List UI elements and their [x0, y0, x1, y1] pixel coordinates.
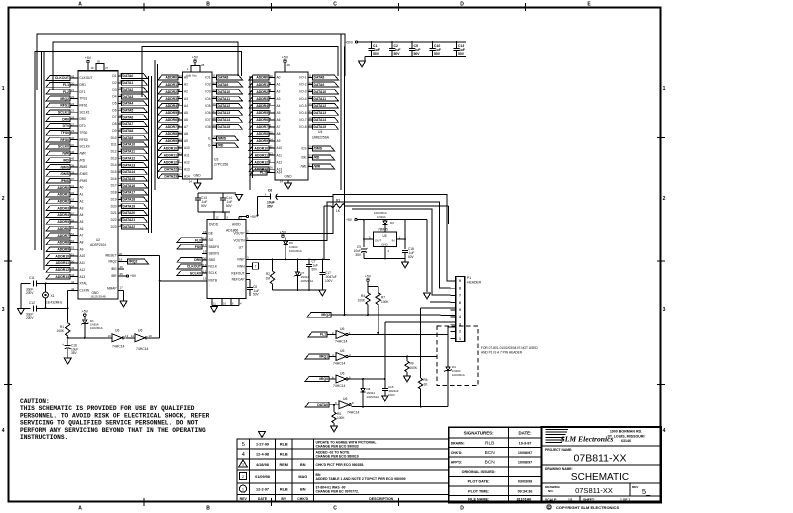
inverter U6E 74HC14 with net /IRQ0 [305, 372, 351, 389]
svg-text:ADDR7: ADDR7 [165, 125, 177, 129]
svg-text:CHANGE PER ECO 980619: CHANGE PER ECO 980619 [316, 455, 359, 459]
svg-text:C: C [333, 2, 337, 8]
svg-text:15: 15 [203, 230, 207, 234]
svg-text:ADDR0: ADDR0 [57, 186, 69, 190]
svg-text:100K: 100K [381, 300, 389, 304]
note text: 7 pin header option [481, 346, 538, 355]
U4 pin 4 A6 / net ADDR6 [249, 116, 281, 122]
svg-text:A1: A1 [184, 83, 188, 87]
svg-text:GND: GND [91, 291, 99, 295]
U2 pin 49 A12 / net ADDR12 [46, 266, 85, 272]
company logo [546, 430, 614, 444]
svg-text:DATA14: DATA14 [218, 118, 231, 122]
svg-text:FOR 07-801-01/02/03/04 IS NOT: FOR 07-801-01/02/03/04 IS NOT USED [481, 346, 538, 350]
svg-text:5: 5 [459, 308, 461, 312]
svg-text:DATA11: DATA11 [218, 97, 231, 101]
svg-text:D3: D3 [112, 88, 116, 92]
svg-text:A9: A9 [184, 139, 188, 143]
wire: address/data bus top loop 3 [142, 47, 338, 97]
svg-text:PERFORM ANY SERVICING BEYOND T: PERFORM ANY SERVICING BEYOND THAT IN THE… [20, 427, 206, 434]
svg-text:1M: 1M [266, 277, 271, 281]
revision table header row [240, 497, 394, 501]
svg-text:19: 19 [213, 123, 217, 127]
svg-text:/IRQ2: /IRQ2 [129, 260, 138, 264]
capacitor C14 .1uF 50V at U7 [220, 193, 233, 212]
resistor R4 100K [358, 287, 371, 315]
svg-text:17: 17 [309, 109, 313, 113]
U3 pin 22 /OE to /RD [208, 142, 238, 148]
svg-text:7: 7 [255, 265, 257, 269]
svg-text:DATA22: DATA22 [123, 225, 136, 229]
svg-text:RFS0: RFS0 [60, 138, 69, 142]
svg-text:R9: R9 [410, 362, 414, 366]
svg-text:/BMS: /BMS [218, 137, 227, 141]
svg-text:51: 51 [71, 253, 75, 257]
svg-text:DATA15: DATA15 [218, 125, 231, 129]
svg-text:SBO: SBO [209, 258, 216, 262]
svg-text:A8: A8 [80, 241, 84, 245]
svg-text:34: 34 [71, 205, 75, 209]
svg-text:SCLK0: SCLK0 [58, 145, 69, 149]
svg-text:/WR: /WR [62, 152, 69, 156]
svg-text:50V: 50V [434, 52, 441, 56]
svg-text:DATA15: DATA15 [123, 177, 136, 181]
svg-text:NCLK: NCLK [209, 265, 218, 269]
diode D4 1N914 100V/61A in dashed option box [444, 335, 464, 407]
svg-text:/RESET: /RESET [105, 254, 117, 258]
diode D8 1N914 100V/61A [361, 379, 380, 407]
U2 pin 39 D2 / net DATA1 [112, 79, 147, 85]
svg-text:50V: 50V [201, 204, 208, 208]
svg-text:A4: A4 [277, 104, 281, 108]
IC U7 DAC AD1866 body [207, 220, 246, 299]
svg-text:I/O-8: I/O-8 [299, 125, 306, 129]
svg-text:U2: U2 [96, 238, 100, 242]
svg-text:45: 45 [120, 272, 124, 276]
svg-text:81101H6_: 81101H6_ [517, 498, 535, 502]
U2 pin 24 RFS1 / net RFS1 [46, 102, 88, 108]
svg-text:4: 4 [663, 428, 666, 434]
svg-text:2: 2 [459, 330, 461, 334]
wire: oscillator node to inverter U6 input [67, 337, 107, 339]
svg-text:ADDR11: ADDR11 [164, 153, 177, 157]
svg-text:74HC14: 74HC14 [136, 347, 149, 351]
svg-text:23: 23 [270, 152, 274, 156]
svg-text:B: B [206, 506, 210, 512]
svg-text:18: 18 [203, 250, 207, 254]
svg-text:IO4: IO4 [205, 97, 210, 101]
svg-text:100V/61A: 100V/61A [452, 373, 465, 377]
U2 pin 46 /WR / net /WR [46, 150, 86, 156]
U7 pin 18 SBOFS [202, 250, 219, 256]
svg-text:DT0: DT0 [63, 124, 70, 128]
svg-text:ADDR2: ADDR2 [256, 90, 268, 94]
wire: address bus verticals left of U3 [155, 60, 158, 190]
svg-text:DATA10: DATA10 [123, 143, 136, 147]
capacitor C13 .1uF 50V [454, 41, 465, 56]
svg-text:A9: A9 [277, 139, 281, 143]
svg-text:PLOT DATE:: PLOT DATE: [468, 480, 490, 484]
U2 pin 26 DR0 / net DR0 [46, 116, 86, 122]
svg-text:ADDR1: ADDR1 [57, 193, 69, 197]
svg-text:31: 31 [71, 184, 75, 188]
svg-text:1K: 1K [336, 209, 341, 213]
svg-text:A3: A3 [277, 97, 281, 101]
svg-text:A12: A12 [277, 160, 283, 164]
svg-text:ADDR5: ADDR5 [256, 111, 268, 115]
svg-text:DATA14: DATA14 [123, 170, 136, 174]
svg-text:IO5: IO5 [205, 104, 210, 108]
svg-text:ADDR9: ADDR9 [165, 139, 177, 143]
diode D3 1N914 100V/61A [374, 211, 394, 232]
net flag /IRQ2 to header pin 4 [307, 313, 455, 318]
svg-text:A5: A5 [80, 220, 84, 224]
U2 pin 45 /RD / net /RD [46, 157, 86, 163]
U2 pin 22 TFS1 / net /IRQ2 [46, 95, 88, 101]
svg-text:DATA9: DATA9 [218, 83, 229, 87]
U3 pin 4 A6 / net ADDR6 [158, 116, 188, 122]
svg-text:A13: A13 [184, 167, 190, 171]
U2 pin 29 TFS0 / net TFS0 [46, 129, 88, 135]
U4 label text [312, 130, 330, 140]
U7 pin 15 DE [202, 230, 213, 236]
svg-text:A5: A5 [277, 111, 281, 115]
U4 pin 22 /OE / net /RD [301, 154, 335, 160]
capacitor C10 .1uF 50V [430, 41, 441, 56]
diode D6 1N914 100V/61A [283, 241, 301, 260]
svg-text:ADDR0: ADDR0 [165, 76, 177, 80]
svg-text:74HC14: 74HC14 [333, 384, 346, 388]
svg-text:ADDR8: ADDR8 [165, 132, 177, 136]
svg-text:IO7: IO7 [205, 118, 210, 122]
svg-text:100V/61A: 100V/61A [289, 249, 302, 253]
svg-text:DATE:: DATE: [518, 431, 532, 436]
signature row 1 [451, 440, 532, 446]
svg-text:11: 11 [309, 74, 312, 78]
svg-text:UM62256A: UM62256A [312, 136, 330, 140]
svg-text:SCHEMATIC: SCHEMATIC [571, 472, 629, 483]
U4 GND pin 14 and ground [280, 175, 292, 190]
svg-text:11: 11 [213, 74, 216, 78]
svg-text:46: 46 [71, 150, 75, 154]
svg-text:+5V: +5V [365, 275, 372, 279]
svg-text:DATA21: DATA21 [123, 218, 136, 222]
svg-text:14: 14 [280, 180, 284, 184]
grid reference numbers left [2, 86, 12, 434]
svg-text:ORIGINAL ISSUED:: ORIGINAL ISSUED: [462, 470, 496, 474]
svg-text:D18: D18 [111, 191, 117, 195]
svg-text:IN: IN [392, 239, 395, 243]
svg-text:C: C [333, 506, 337, 512]
U2 pin 14 D22 / net DATA21 [111, 216, 148, 222]
wire: CLKIN line to C12 rail [21, 290, 70, 322]
U2 pin 57 A4 / net ADDR4 [46, 211, 84, 217]
svg-text:74HC14: 74HC14 [347, 411, 360, 415]
U2 GND label [91, 291, 99, 295]
svg-text:U6: U6 [138, 329, 142, 333]
svg-text:13: 13 [213, 88, 217, 92]
copyright text [547, 505, 620, 510]
U4 pin 7 A3 / net ADDR3 [249, 95, 281, 101]
svg-text:22: 22 [309, 154, 313, 158]
U4 pin 1 A14 / net FL1 [250, 169, 282, 175]
wire: C6 line to VOUTP loop [332, 195, 334, 197]
svg-text:01/09/98: 01/09/98 [255, 475, 270, 479]
svg-text:37: 37 [105, 66, 108, 70]
svg-text:SCLK0: SCLK0 [190, 271, 201, 275]
signatures header [464, 431, 532, 436]
svg-text:A: A [78, 506, 82, 512]
svg-text:DATA10: DATA10 [314, 90, 327, 94]
svg-text:10-3-97: 10-3-97 [519, 441, 532, 445]
svg-text:57: 57 [71, 211, 75, 215]
svg-text:DATA15: DATA15 [314, 125, 327, 129]
svg-text:21: 21 [270, 145, 274, 149]
voltage regulator U5 78M05 [369, 228, 401, 254]
U2 pin 53 A8 / net ADDR8 [46, 239, 84, 245]
svg-text:DT0: DT0 [80, 124, 86, 128]
svg-text:U6: U6 [115, 329, 119, 333]
svg-text:21: 21 [71, 88, 75, 92]
svg-text:RFS0: RFS0 [80, 138, 88, 142]
svg-text:ADDR2: ADDR2 [57, 200, 69, 204]
svg-text:10: 10 [270, 74, 274, 78]
svg-text:SCLK1: SCLK1 [58, 110, 69, 114]
svg-text:46: 46 [120, 265, 124, 269]
diode D7 zener 1N914 100V/61A [294, 260, 313, 291]
U2 pin 54 A7 / net ADDR7 [46, 232, 84, 238]
svg-text:A12: A12 [184, 160, 190, 164]
U4 pin 18 I/O-7 / net DATA14 [299, 116, 338, 122]
U4 pin 21 A10 / net ADDR10 [249, 145, 282, 151]
power +5V at U3 [187, 56, 205, 73]
svg-text:/BR: /BR [111, 274, 117, 278]
svg-text:+: + [367, 246, 369, 250]
svg-text:D1: D1 [112, 74, 116, 78]
U2 pin 41 XTAL [70, 280, 87, 286]
U2 pin 44 A13 / net ADDR13 [46, 273, 85, 279]
svg-text:36: 36 [71, 163, 75, 167]
svg-text:RFS1: RFS1 [80, 104, 88, 108]
U2 pin 65 D8 / net DATA7 [112, 120, 147, 126]
svg-text:12-2-97: 12-2-97 [256, 487, 269, 491]
svg-text:DATA0: DATA0 [317, 403, 328, 407]
svg-text:09:34:36: 09:34:36 [518, 489, 533, 493]
svg-text:A4: A4 [184, 104, 188, 108]
svg-text:ADDR1: ADDR1 [256, 83, 268, 87]
U3 pin 9 A1 / net ADDR1 [158, 81, 188, 87]
svg-text:BCN: BCN [485, 460, 496, 466]
svg-text:DATA3: DATA3 [123, 95, 134, 99]
svg-text:TFS0: TFS0 [80, 131, 88, 135]
svg-text:+5V: +5V [82, 310, 89, 314]
svg-text:20: 20 [119, 252, 123, 256]
svg-text:D: D [460, 2, 464, 8]
svg-text:A0: A0 [277, 76, 281, 80]
signature row 3 [451, 460, 532, 466]
ground for capacitor bank [359, 57, 366, 68]
svg-text:200V: 200V [26, 316, 34, 320]
svg-text:COPYRIGHT SLM ELECTRONICS: COPYRIGHT SLM ELECTRONICS [556, 505, 619, 510]
svg-text:A0: A0 [184, 76, 188, 80]
svg-text:15: 15 [309, 95, 313, 99]
svg-text:DATA20: DATA20 [123, 211, 136, 215]
wire: U6D output line [349, 356, 438, 358]
svg-text:D7: D7 [112, 115, 116, 119]
svg-text:U6: U6 [340, 372, 344, 376]
svg-text:VINP: VINP [237, 258, 244, 262]
svg-text:D23: D23 [111, 225, 117, 229]
svg-text:D20: D20 [111, 204, 117, 208]
svg-text:1900 BORMAN RD.: 1900 BORMAN RD. [610, 430, 642, 434]
svg-text:A2: A2 [277, 90, 281, 94]
svg-text:/IRQ2: /IRQ2 [108, 260, 117, 264]
U7 pin 16 SI2 / net FL0 [177, 237, 214, 243]
U7 pin 13 SCLK / net SCLK0 [177, 270, 218, 276]
U2 pin 4 D13 / net DATA12 [111, 154, 148, 160]
svg-text:IO1: IO1 [205, 76, 210, 80]
U2 pin 9 D17 / net DATA16 [111, 182, 148, 188]
svg-text:U6: U6 [343, 397, 347, 401]
U3 label text [214, 158, 228, 167]
svg-text:12: 12 [216, 215, 219, 219]
wire: VOUTP to header pin 9 [246, 195, 451, 281]
svg-text:/DMS: /DMS [80, 172, 88, 176]
svg-text:ADDR10: ADDR10 [55, 254, 69, 258]
svg-text:DATA8: DATA8 [218, 76, 229, 80]
U3 pin 17 IO6 / net DATA13 [205, 109, 242, 115]
svg-text:56: 56 [71, 218, 75, 222]
U2 pin 5 D14 / net DATA13 [111, 161, 148, 167]
U2 pin 45 /BR and +5V pull [111, 272, 137, 278]
U2 pin 37 /PMS / net /PMS [46, 177, 87, 183]
svg-text:SIGNATURES:: SIGNATURES: [464, 431, 494, 436]
ground at crystal rail [18, 309, 25, 315]
svg-text:DATA19: DATA19 [123, 204, 136, 208]
svg-text:ADDR7: ADDR7 [57, 234, 69, 238]
svg-text:D19: D19 [111, 197, 117, 201]
svg-text:SHEET:: SHEET: [583, 498, 595, 502]
svg-text:78M05: 78M05 [378, 228, 388, 232]
svg-text:/OE: /OE [301, 156, 307, 160]
svg-text:13: 13 [203, 270, 207, 274]
svg-text:DATA23: DATA23 [164, 175, 177, 179]
svg-text:CHK'D: CHK'D [297, 497, 308, 501]
svg-text:D13: D13 [111, 156, 117, 160]
resistor R2 1M [266, 260, 275, 291]
svg-text:DR0: DR0 [62, 117, 69, 121]
svg-text:U5: U5 [382, 234, 386, 238]
svg-text:DATA16: DATA16 [123, 184, 136, 188]
svg-text:D3: D3 [390, 221, 394, 225]
svg-text:I/O-5: I/O-5 [299, 104, 306, 108]
svg-text:I/O-2: I/O-2 [299, 83, 306, 87]
wire: U6F output line to header region [352, 406, 449, 408]
svg-text:17: 17 [213, 109, 217, 113]
capacitor C9 10uF 35V [354, 245, 369, 259]
svg-text:3: 3 [663, 307, 666, 313]
svg-text:50V: 50V [458, 52, 465, 56]
svg-text:100V/61A: 100V/61A [90, 326, 103, 330]
svg-text:100V: 100V [325, 279, 333, 283]
svg-text:24: 24 [71, 102, 75, 106]
U2 pin 64 D7 / net DATA6 [112, 113, 147, 119]
svg-text:TFS1: TFS1 [80, 97, 88, 101]
svg-text:A10: A10 [80, 254, 86, 258]
U7 pin 14 NCLK / net CLKOUT [177, 263, 218, 269]
power +5V at U4 [282, 56, 290, 73]
svg-text:MAG: MAG [298, 475, 307, 479]
U7 bottom pins and ground [211, 299, 243, 313]
U2 pin 10 D18 / net DATA17 [111, 189, 148, 195]
U2 pin 35 /DMS / net /DMS [46, 170, 87, 176]
U2 pin 55 A6 / net ADDR6 [46, 225, 84, 231]
svg-text:14: 14 [189, 180, 193, 184]
svg-text:27: 27 [309, 163, 313, 167]
svg-text:DATA1: DATA1 [123, 81, 134, 85]
svg-text:I/O-7: I/O-7 [299, 118, 306, 122]
svg-text:50V: 50V [408, 255, 415, 259]
svg-text:/PMS: /PMS [61, 179, 70, 183]
svg-text:A14: A14 [277, 171, 283, 175]
svg-text:50V: 50V [226, 204, 233, 208]
svg-text:17: 17 [120, 286, 124, 290]
svg-text:A0: A0 [80, 186, 84, 190]
svg-text:8: 8 [459, 286, 461, 290]
capacitor C15 .0022uF 100V [382, 322, 399, 401]
svg-text:100V/61A: 100V/61A [367, 395, 380, 399]
U4 pin 5 A5 / net ADDR5 [249, 109, 281, 115]
svg-text:I/O-3: I/O-3 [299, 90, 306, 94]
svg-text:/IRQ2: /IRQ2 [321, 313, 330, 317]
svg-text:A9: A9 [80, 247, 84, 251]
svg-text:I/O-1: I/O-1 [299, 76, 306, 80]
U3 pin 6 A4 / net ADDR4 [158, 102, 188, 108]
svg-text:/WR: /WR [80, 151, 87, 155]
svg-text:A10: A10 [184, 146, 190, 150]
svg-text:63146: 63146 [621, 439, 631, 443]
svg-text:36: 36 [203, 256, 207, 260]
U2 pin 2 D12 / net DATA11 [111, 148, 148, 154]
svg-text:ADDR3: ADDR3 [57, 206, 69, 210]
svg-text:ST. LOUIS, MISSOURI: ST. LOUIS, MISSOURI [608, 434, 645, 438]
U2 pin 7 D16 / net DATA15 [111, 175, 148, 181]
svg-text:25: 25 [270, 130, 274, 134]
svg-text:9: 9 [459, 279, 461, 283]
svg-text:R4: R4 [361, 294, 365, 298]
svg-text:DATA10: DATA10 [218, 90, 231, 94]
svg-text:74HC14: 74HC14 [335, 340, 348, 344]
U2 pin 27 DT0 / net DT0 [46, 122, 86, 128]
svg-text:DATE: DATE [258, 497, 268, 501]
inverter U6D 74HC14 with net /IRQ1 [305, 349, 351, 366]
svg-text:/RD: /RD [63, 158, 69, 162]
svg-text:ADDR4: ADDR4 [57, 213, 69, 217]
svg-text:ADDR12: ADDR12 [254, 160, 268, 164]
revision row 5 [242, 441, 377, 449]
U7 pin 12 RSTB / wire to inverter output [160, 277, 217, 283]
svg-text:28: 28 [287, 63, 291, 67]
U4 pin 19 I/O-8 / net DATA15 [299, 123, 338, 129]
svg-text:DATA13: DATA13 [123, 163, 136, 167]
svg-text:X1: X1 [51, 294, 55, 298]
svg-text:A7: A7 [80, 234, 84, 238]
inverter U6F 74HC14 with net DATA0 [305, 397, 360, 415]
svg-text:50: 50 [71, 259, 75, 263]
U4 pin 8 A2 / net ADDR2 [249, 88, 281, 94]
svg-text:R6: R6 [424, 378, 428, 382]
U3 pin 16 IO5 / net DATA12 [205, 102, 242, 108]
